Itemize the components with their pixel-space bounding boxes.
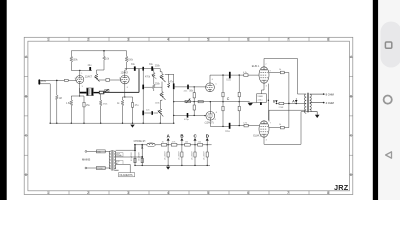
ground symbol stage ground — [130, 125, 134, 128]
wire V4 cathode feedback loop — [264, 112, 311, 145]
svg-text:1k: 1k — [279, 124, 281, 126]
capacitor C17 node B — [181, 144, 182, 145]
secondary winding — [310, 94, 312, 110]
wire V3 screen resistor — [269, 72, 280, 74]
wire ladder mid branch — [144, 86, 153, 88]
mains input terminals — [85, 150, 109, 170]
svg-text:1k: 1k — [279, 69, 281, 71]
svg-text:JRZ: JRZ — [334, 183, 349, 192]
svg-text:4.7k: 4.7k — [243, 72, 247, 74]
resistor R13b lower — [238, 106, 240, 111]
frame ruler ticks bottom — [49, 191, 329, 195]
svg-text:8 OHM: 8 OHM — [326, 92, 334, 96]
svg-text:22k: 22k — [198, 141, 201, 143]
frame ruler letters right — [350, 55, 353, 177]
svg-text:6: 6 — [247, 191, 249, 195]
wire to V1 grid — [68, 79, 76, 81]
resistor R6 plate load V1B — [126, 51, 128, 57]
capacitor C14 reservoir — [134, 158, 136, 162]
capacitor C10 series on grid wire (dark) — [187, 85, 189, 90]
capacitor C19 node D — [207, 144, 208, 145]
pot RV4 bass — [161, 92, 164, 98]
svg-text:0.1u: 0.1u — [225, 131, 230, 133]
node A arrow psu — [167, 134, 171, 145]
pentode V4 lower EL84 — [259, 121, 269, 137]
svg-text:C: C — [227, 97, 230, 101]
capacitor C1 decoupling (dark) — [89, 67, 91, 71]
svg-text:FILAMENTS: FILAMENTS — [120, 174, 133, 177]
LT secondary wire — [116, 164, 131, 172]
diode D2 — [141, 145, 143, 147]
svg-text:7: 7 — [119, 78, 120, 80]
svg-text:D: D — [206, 134, 209, 139]
svg-text:2: 2 — [75, 78, 76, 80]
svg-text:4: 4 — [167, 38, 169, 42]
wire grid line V2A — [174, 86, 206, 88]
rectifier diodes — [134, 144, 143, 165]
core lines — [306, 93, 308, 113]
input terminal circle — [41, 80, 42, 81]
capacitor C18 node C — [194, 144, 195, 145]
resistor R22 lower divider — [193, 102, 195, 105]
resistor R15 screen upper — [280, 71, 284, 74]
svg-text:7: 7 — [287, 191, 289, 195]
wire V4 screen resistor — [269, 127, 280, 129]
filaments label box — [119, 173, 135, 177]
svg-text:16u 450V: 16u 450V — [178, 151, 180, 160]
pot RV7 mid — [153, 84, 156, 88]
resistor R11 grid stopper upper — [244, 74, 248, 77]
wire R6 to V1B plate — [125, 70, 127, 75]
resistor R16 screen lower — [280, 126, 284, 129]
capacitor C13 bias (dark) — [260, 102, 262, 105]
bias label box — [257, 94, 267, 103]
resistor R23 slope — [168, 74, 170, 82]
svg-text:47u 450V: 47u 450V — [131, 152, 133, 161]
triode V1B — [120, 75, 129, 84]
terminal neutral — [85, 167, 87, 169]
svg-text:2: 2 — [87, 38, 89, 42]
node A arrow to OT centre tap — [289, 102, 305, 104]
svg-text:1: 1 — [47, 191, 49, 195]
svg-text:16u 450V: 16u 450V — [204, 151, 206, 160]
capacitor C3 cathode bypass — [83, 96, 85, 102]
pot RV8 upper chain — [153, 69, 155, 73]
frame ruler numbers bottom — [47, 191, 329, 195]
wire V1A cathode down — [79, 84, 81, 97]
resistor R24 trimmer leg to ground — [99, 94, 102, 124]
svg-text:16u 450V: 16u 450V — [192, 151, 194, 160]
tone stack — [144, 69, 210, 124]
node B arrow to screens — [276, 103, 277, 104]
resistor R17 series — [161, 144, 166, 147]
svg-text:FUSE: FUSE — [97, 168, 103, 170]
capacitor C12 coupling lower (dark) — [229, 123, 231, 129]
core lines — [111, 150, 113, 171]
triode V2A phase inverter — [206, 83, 215, 92]
svg-text:(12AU7): (12AU7) — [205, 121, 214, 124]
pot RV6 master — [159, 109, 162, 115]
label box 6.3V — [115, 161, 123, 165]
svg-text:5: 5 — [207, 191, 209, 195]
fuse F1 — [87, 150, 97, 152]
svg-text:270R: 270R — [279, 107, 284, 109]
primary winding — [109, 151, 110, 169]
resistor R12b lower — [222, 106, 224, 111]
resistor R14 grid stopper lower — [244, 124, 248, 127]
resistor R20 series — [198, 144, 203, 147]
capacitor C4 on rail (dark) — [134, 66, 136, 70]
wire riser to stage2 rail — [138, 69, 140, 93]
frame ruler ticks left — [24, 57, 28, 175]
frame ruler ticks top — [49, 37, 329, 41]
wire grid line V2B — [174, 114, 206, 116]
svg-text:1M: 1M — [59, 98, 62, 100]
svg-text:12AX7: 12AX7 — [85, 76, 93, 79]
node plate junction — [79, 70, 80, 71]
capacitor C5 on rail (dark) — [151, 66, 153, 70]
node input junction — [56, 80, 58, 82]
ground OT secondary — [315, 115, 320, 118]
frame ruler ticks right — [349, 57, 352, 175]
pentode V3 upper EL84 — [259, 67, 269, 83]
resistor R1 grid stopper — [64, 79, 68, 81]
capacitor C21 (dark) on feed wire — [144, 112, 151, 114]
HT secondary tap lower — [116, 156, 143, 158]
heater tie line — [267, 84, 269, 121]
svg-text:8: 8 — [327, 38, 329, 42]
svg-text:100k: 100k — [128, 59, 134, 61]
svg-text:IN: IN — [43, 80, 46, 83]
wire V2A plate up — [210, 72, 259, 83]
wire V4 plate to OT primary bottom — [269, 110, 305, 121]
svg-text:47u 450V: 47u 450V — [138, 152, 140, 161]
psu filter shunt caps — [134, 144, 210, 166]
wire rail to tone caps — [159, 69, 161, 72]
svg-text:1: 1 — [81, 73, 82, 75]
frame ruler numbers top — [47, 38, 329, 42]
frame ruler letters left — [25, 55, 28, 177]
svg-text:6: 6 — [247, 38, 249, 42]
svg-text:8: 8 — [127, 87, 128, 89]
terminal live — [85, 151, 87, 153]
ground arrow PI — [248, 103, 252, 106]
B+ rail with choke — [135, 143, 212, 147]
nav back triangle button — [386, 152, 392, 158]
svg-text:1: 1 — [47, 38, 49, 42]
output transformer T2 — [305, 93, 325, 115]
HT secondary tap upper — [116, 149, 135, 151]
svg-text:8: 8 — [327, 191, 329, 195]
secondary tap 4 ohm — [311, 102, 324, 104]
wire R2 to ground bus — [56, 100, 58, 124]
label box 230V 250mA — [115, 153, 123, 157]
ground V3 bias — [249, 103, 253, 106]
node C arrow psu — [194, 134, 198, 145]
wire V1A plate — [79, 70, 81, 75]
svg-text:CHOKE 1H: CHOKE 1H — [134, 141, 146, 143]
wire C2 to V1B grid — [110, 79, 121, 81]
divider wire mid — [174, 101, 211, 103]
trimmer RV5 presence — [185, 100, 191, 102]
svg-text:250k: 250k — [155, 83, 161, 85]
svg-text:1k: 1k — [162, 141, 164, 143]
svg-text:130R: 130R — [257, 96, 263, 98]
trimmer pot RV2 in thick path — [99, 89, 109, 94]
master volume branch — [144, 100, 163, 124]
svg-text:4 OHM: 4 OHM — [326, 101, 334, 105]
svg-text:EL84 1: EL84 1 — [252, 65, 260, 68]
svg-text:3: 3 — [82, 86, 83, 88]
choke L1 — [147, 143, 156, 147]
node bus junctions — [50, 123, 51, 124]
jack sleeve wire — [40, 84, 50, 123]
capacitor C11 coupling upper (dark) — [229, 72, 231, 79]
resistor R21 divider — [198, 101, 203, 103]
svg-text:B: B — [180, 134, 183, 139]
nav bar active pill — [381, 22, 400, 68]
capacitor C23 ladder low (dark) — [142, 111, 144, 116]
svg-text:2: 2 — [87, 191, 89, 195]
svg-text:3: 3 — [127, 191, 129, 195]
resistor R12 upper grid leak V3 — [222, 74, 223, 75]
ground bus stage1 — [50, 122, 174, 124]
resistor R18 series — [171, 144, 177, 147]
right black letterbox bar — [373, 0, 378, 200]
node rail junction — [103, 50, 105, 52]
resistor R13 upper grid leak V4 — [239, 74, 240, 75]
svg-text:250k: 250k — [155, 65, 161, 67]
B+ rail stage 1 — [71, 50, 126, 52]
svg-text:+50u: +50u — [257, 100, 263, 102]
interstage shielded pot T-pad (thick element) — [80, 88, 100, 96]
svg-text:470k: 470k — [145, 77, 151, 79]
resistor R4 — [103, 51, 105, 57]
capacitor C15 — [141, 158, 143, 162]
wire bass pot down — [161, 99, 163, 102]
wire thick path to rail riser — [104, 91, 139, 93]
svg-text:EL84 2: EL84 2 — [253, 135, 261, 138]
ground psu — [166, 167, 170, 170]
svg-text:3: 3 — [127, 38, 129, 42]
primary winding — [305, 94, 307, 113]
svg-text:470p: 470p — [184, 119, 190, 121]
wire V2B cathode to lower grid line — [210, 120, 229, 126]
node rail drop — [142, 67, 144, 71]
svg-text:12AX7: 12AX7 — [121, 72, 129, 75]
vertical C9 to ground bus — [173, 89, 175, 123]
diode D1 — [134, 145, 136, 147]
triode V2B phase inverter lower — [204, 111, 215, 120]
wire to ground — [251, 102, 257, 104]
svg-text:MAINS: MAINS — [82, 157, 90, 161]
capacitor C6 cathode bypass V1B — [131, 103, 133, 108]
input jack J1 — [38, 79, 40, 84]
wire cathode V1A tie — [71, 95, 79, 97]
triode V1A — [76, 76, 84, 84]
resistor R3 plate load V1A — [70, 51, 72, 57]
tone ladder column wire — [142, 69, 144, 124]
resistor R10 — [193, 87, 195, 93]
capacitor C20 series on V2B grid wire (dark) — [187, 113, 189, 118]
svg-text:250mA: 250mA — [116, 154, 122, 157]
svg-text:4.7k: 4.7k — [172, 141, 176, 143]
svg-text:SW: SW — [97, 151, 100, 153]
schematic frame inner border — [28, 41, 350, 191]
nav home circle button — [384, 96, 392, 104]
secondary common to ground — [311, 110, 317, 115]
node D arrow psu — [206, 134, 209, 145]
fuse F2 — [87, 167, 97, 169]
psu ground bus — [135, 164, 210, 166]
android nav bar background — [378, 0, 400, 200]
jack tip wire — [40, 79, 64, 81]
wire pot to coupling cap — [98, 79, 106, 81]
resistor R2 grid leak — [56, 95, 59, 99]
capacitor C16 node A — [167, 144, 168, 145]
power transformer T1 — [109, 150, 142, 173]
capacitor C2 coupling — [106, 79, 110, 82]
capacitor C9 coupling to PI (dark) — [173, 83, 175, 89]
cathode bias network V3/V4 — [249, 83, 267, 106]
V1B cathode network wires — [124, 84, 126, 97]
pot wiper arrow — [95, 77, 100, 82]
svg-text:10k: 10k — [185, 141, 188, 143]
node B arrow psu — [180, 134, 183, 145]
wire V3 plate loop to OT primary top — [264, 59, 305, 95]
svg-text:16u 450V: 16u 450V — [165, 151, 167, 160]
svg-text:5: 5 — [207, 38, 209, 42]
svg-text:4: 4 — [167, 191, 169, 195]
svg-text:7: 7 — [287, 38, 289, 42]
svg-text:0.1u: 0.1u — [226, 79, 231, 81]
secondary tap 8 ohm — [311, 93, 324, 95]
schematic frame outer border — [24, 37, 353, 194]
resistor R5 volume pot body — [95, 74, 98, 80]
secondary winding — [114, 151, 118, 170]
resistor R25 screen feed — [279, 102, 284, 104]
nav recents square button — [385, 42, 391, 48]
capacitor C22 ladder mid (dark) — [142, 85, 144, 90]
resistor R9 cathode V1B — [121, 100, 124, 106]
psu cap labels (rotated) — [131, 151, 206, 161]
left black letterbox bar — [0, 0, 7, 200]
resistor R19 series — [185, 144, 191, 147]
stage 2 feed rail — [125, 68, 160, 70]
wire plate rail to V1A — [71, 69, 92, 71]
resistor R7 cathode V1A — [70, 96, 72, 100]
pot RV3 treble — [161, 74, 164, 80]
wire R4 to volume pot — [97, 70, 105, 74]
svg-text:100k: 100k — [73, 59, 79, 61]
wire V2B plate to upper node — [210, 102, 249, 112]
wire grid leak drop — [56, 80, 58, 95]
wire tone out — [165, 74, 174, 83]
